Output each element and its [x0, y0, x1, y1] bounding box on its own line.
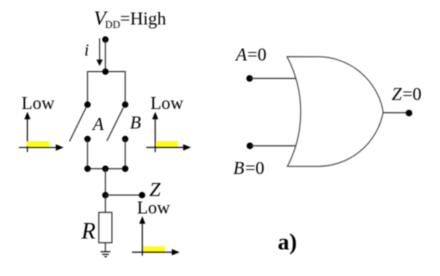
- node junction top: [102, 68, 108, 74]
- label Z=0: [392, 84, 422, 104]
- node bus left: [84, 166, 90, 172]
- switch A: [70, 101, 91, 142]
- node input A: [246, 75, 253, 82]
- wire to Z terminal: [105, 194, 142, 196]
- label A=0: [235, 45, 267, 65]
- wire switch B to bus: [124, 139, 126, 169]
- svg-text:Z: Z: [392, 84, 403, 104]
- wire switch A to bus: [87, 139, 89, 169]
- switch B: [107, 101, 128, 142]
- label VDD=High: [94, 7, 166, 31]
- waveform low level (yellow) left: [27, 141, 49, 146]
- svg-text:R: R: [81, 218, 96, 243]
- wire resistor to ground: [104, 243, 106, 252]
- wire VDD to junction: [104, 40, 106, 72]
- node Z terminal: [139, 192, 145, 198]
- svg-text:=0: =0: [247, 45, 266, 65]
- label B=0: [233, 158, 264, 178]
- waveform axes left input: [19, 112, 64, 152]
- ground: [101, 252, 111, 257]
- wire input A: [250, 77, 297, 79]
- svg-text:A: A: [235, 45, 248, 65]
- svg-text:=High: =High: [120, 8, 166, 28]
- svg-text:B: B: [130, 112, 141, 132]
- current arrow i: [96, 38, 102, 66]
- node bus middle: [102, 166, 108, 172]
- wire bus to node Z: [104, 169, 106, 195]
- svg-text:a): a): [278, 229, 297, 254]
- node Z junction: [102, 192, 108, 198]
- node VDD terminal dot: [102, 36, 108, 42]
- svg-text:Low: Low: [150, 93, 183, 113]
- waveform axes output: [132, 216, 180, 255]
- svg-text:Low: Low: [22, 93, 55, 113]
- waveform low level (yellow) right: [156, 141, 178, 146]
- svg-text:=0: =0: [245, 158, 264, 178]
- node bus right: [122, 166, 128, 172]
- node input B: [247, 143, 254, 150]
- waveform low level (yellow) output: [143, 246, 165, 251]
- wire bottom bus: [88, 168, 126, 170]
- or-gate body: [287, 57, 383, 167]
- svg-text:=0: =0: [402, 84, 421, 104]
- svg-text:B: B: [233, 158, 244, 178]
- wire node Z to resistor: [104, 195, 106, 212]
- node output Z: [406, 110, 413, 117]
- waveform axes right input: [146, 112, 191, 153]
- resistor R: [99, 212, 112, 242]
- svg-text:A: A: [92, 114, 105, 134]
- svg-text:i: i: [84, 41, 89, 60]
- wire output Z: [383, 112, 409, 114]
- wire input B: [250, 145, 297, 147]
- svg-text:DD: DD: [105, 20, 121, 31]
- wire top rail: [88, 72, 126, 105]
- svg-text:Low: Low: [137, 198, 170, 218]
